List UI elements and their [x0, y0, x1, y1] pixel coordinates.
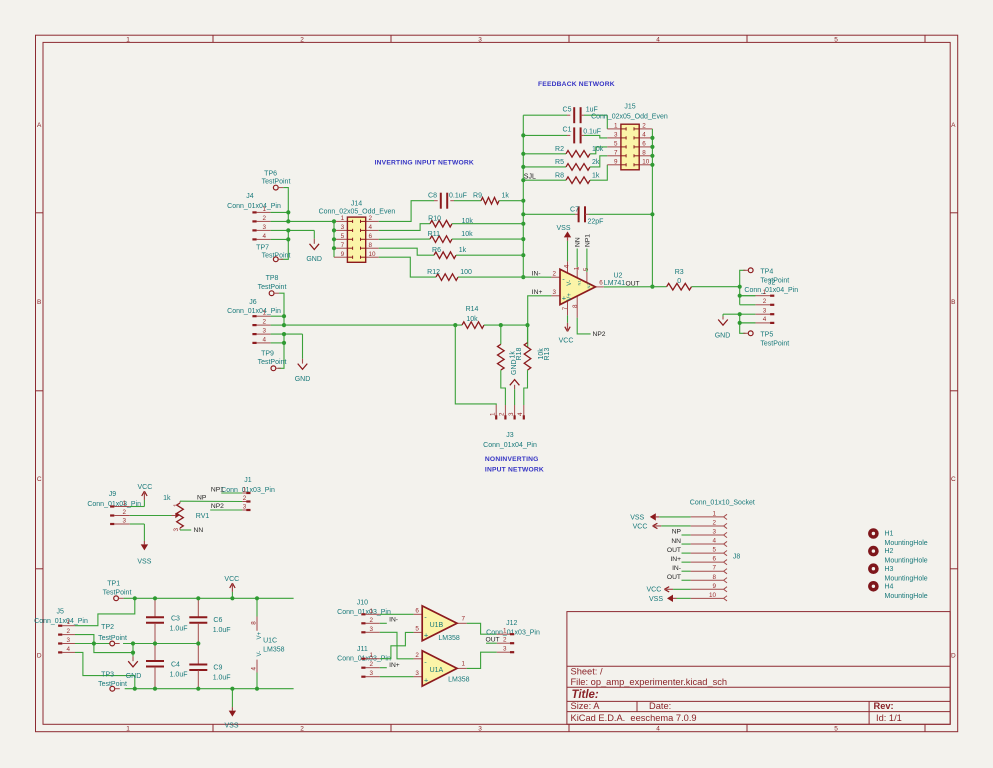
svg-text:C6: C6	[213, 617, 222, 624]
svg-text:2: 2	[300, 725, 304, 732]
svg-text:Conn_02x05_Odd_Even: Conn_02x05_Odd_Even	[591, 113, 668, 120]
svg-text:N2: N2	[586, 283, 591, 289]
svg-text:TP8: TP8	[266, 275, 279, 282]
svg-text:C: C	[37, 476, 42, 483]
svg-text:7: 7	[614, 150, 618, 157]
svg-text:IN-: IN-	[672, 565, 681, 572]
svg-text:1k: 1k	[163, 495, 171, 502]
svg-text:J9: J9	[109, 491, 117, 498]
svg-text:3: 3	[503, 646, 507, 653]
svg-text:TP9: TP9	[261, 351, 274, 358]
svg-text:1: 1	[763, 289, 767, 296]
svg-text:10: 10	[709, 592, 717, 599]
svg-text:R2: R2	[555, 146, 564, 153]
svg-text:IN+: IN+	[532, 289, 543, 296]
svg-text:3: 3	[552, 289, 556, 296]
svg-text:MountingHole: MountingHole	[885, 575, 928, 582]
svg-text:4: 4	[763, 316, 767, 323]
svg-text:5: 5	[712, 547, 716, 554]
svg-text:VCC: VCC	[138, 484, 153, 491]
svg-text:1k: 1k	[592, 172, 600, 179]
svg-text:D: D	[951, 653, 956, 660]
svg-text:3: 3	[262, 328, 266, 335]
svg-text:2: 2	[369, 661, 373, 668]
svg-text:TP5: TP5	[760, 331, 773, 338]
svg-text:FEEDBACK NETWORK: FEEDBACK NETWORK	[538, 81, 615, 88]
svg-text:H3: H3	[885, 566, 894, 573]
svg-text:J11: J11	[357, 646, 368, 653]
svg-text:2: 2	[243, 495, 247, 502]
svg-text:VCC: VCC	[559, 338, 574, 345]
svg-text:1: 1	[126, 36, 130, 43]
svg-text:LM358: LM358	[438, 635, 460, 642]
svg-text:A: A	[951, 122, 956, 129]
svg-text:1k: 1k	[459, 247, 467, 254]
svg-text:N1: N1	[577, 280, 582, 286]
svg-text:C9: C9	[213, 665, 222, 672]
svg-text:GND: GND	[715, 333, 731, 340]
svg-text:R13: R13	[544, 348, 551, 361]
svg-text:4: 4	[369, 224, 373, 231]
svg-text:1: 1	[462, 661, 466, 668]
svg-text:U1A: U1A	[430, 667, 444, 674]
svg-text:J3: J3	[506, 432, 514, 439]
svg-text:2: 2	[499, 412, 506, 416]
svg-text:VSS: VSS	[224, 723, 238, 730]
svg-text:3: 3	[508, 412, 515, 416]
svg-text:TP2: TP2	[101, 624, 114, 631]
svg-text:LM358: LM358	[448, 676, 470, 683]
svg-text:Id: 1/1: Id: 1/1	[876, 713, 902, 723]
svg-text:H1: H1	[885, 531, 894, 538]
svg-text:1: 1	[369, 652, 373, 659]
svg-text:0.1uF: 0.1uF	[583, 128, 601, 135]
svg-text:V-: V-	[257, 651, 263, 657]
svg-text:3: 3	[415, 670, 419, 677]
svg-text:J8: J8	[733, 554, 741, 561]
svg-text:B: B	[37, 299, 41, 306]
svg-text:2: 2	[66, 628, 70, 635]
svg-text:1.0uF: 1.0uF	[213, 627, 231, 634]
svg-text:4: 4	[656, 725, 660, 732]
svg-text:4: 4	[564, 264, 571, 268]
svg-text:3: 3	[614, 132, 618, 139]
svg-text:IN-: IN-	[532, 271, 541, 278]
svg-text:1: 1	[369, 608, 373, 615]
svg-text:1: 1	[712, 510, 716, 517]
svg-text:NP2: NP2	[211, 503, 224, 510]
svg-text:1: 1	[66, 619, 70, 626]
svg-text:1.0uF: 1.0uF	[170, 626, 188, 633]
svg-text:Date:: Date:	[649, 701, 671, 711]
svg-text:Conn_02x05_Odd_Even: Conn_02x05_Odd_Even	[319, 208, 396, 215]
svg-text:6: 6	[599, 279, 603, 286]
svg-text:INPUT NETWORK: INPUT NETWORK	[485, 467, 544, 474]
svg-text:SJL: SJL	[524, 173, 536, 180]
svg-text:R12: R12	[427, 269, 440, 276]
svg-text:VSS: VSS	[649, 596, 663, 603]
svg-text:9: 9	[712, 583, 716, 590]
svg-text:NP1: NP1	[211, 487, 224, 494]
svg-text:J15: J15	[624, 104, 635, 111]
svg-text:RV1: RV1	[196, 513, 210, 520]
svg-text:C4: C4	[171, 661, 180, 668]
svg-text:IN+: IN+	[670, 556, 681, 563]
svg-text:5: 5	[614, 141, 618, 148]
svg-text:3: 3	[122, 518, 126, 525]
svg-text:INVERTING INPUT NETWORK: INVERTING INPUT NETWORK	[375, 159, 474, 166]
svg-text:U1B: U1B	[430, 622, 444, 629]
svg-text:H2: H2	[885, 548, 894, 555]
svg-text:2: 2	[763, 298, 767, 305]
svg-text:3: 3	[173, 528, 180, 532]
svg-text:6: 6	[369, 233, 373, 240]
svg-text:1: 1	[503, 628, 507, 635]
svg-text:J2: J2	[768, 279, 776, 286]
svg-text:MountingHole: MountingHole	[885, 540, 928, 547]
svg-text:+: +	[424, 630, 429, 639]
svg-text:10k: 10k	[462, 218, 474, 225]
svg-text:VSS: VSS	[556, 225, 570, 232]
svg-text:U2: U2	[614, 273, 623, 280]
svg-text:R9: R9	[473, 193, 482, 200]
svg-text:NN: NN	[575, 237, 582, 247]
svg-text:+: +	[424, 675, 429, 684]
svg-text:GND: GND	[295, 376, 311, 383]
svg-text:IN+: IN+	[389, 662, 400, 669]
svg-text:2: 2	[369, 617, 373, 624]
svg-text:R18: R18	[516, 348, 523, 361]
svg-text:R11: R11	[428, 231, 440, 238]
svg-text:22pF: 22pF	[588, 218, 604, 225]
svg-text:V+: V+	[567, 293, 573, 301]
svg-text:6: 6	[415, 608, 419, 615]
svg-text:2k: 2k	[592, 159, 600, 166]
svg-text:3: 3	[478, 36, 482, 43]
svg-text:U1C: U1C	[263, 638, 277, 645]
svg-text:VCC: VCC	[633, 523, 648, 530]
svg-text:Conn_01x04_Pin: Conn_01x04_Pin	[744, 287, 798, 294]
svg-text:File: op_amp_experimenter.kica: File: op_amp_experimenter.kicad_sch	[571, 677, 728, 687]
svg-text:V-: V-	[567, 280, 573, 286]
svg-text:Conn_01x04_Pin: Conn_01x04_Pin	[227, 308, 281, 315]
svg-text:Rev:: Rev:	[874, 701, 894, 711]
svg-text:B: B	[951, 299, 955, 306]
svg-text:TestPoint: TestPoint	[258, 284, 287, 291]
svg-text:10k: 10k	[592, 146, 604, 153]
svg-text:J1: J1	[244, 477, 252, 484]
svg-text:J10: J10	[357, 600, 368, 607]
svg-text:TP3: TP3	[101, 671, 114, 678]
svg-text:7: 7	[462, 616, 466, 623]
svg-text:5: 5	[341, 233, 345, 240]
svg-text:D: D	[37, 653, 42, 660]
svg-text:9: 9	[614, 159, 618, 166]
svg-text:10: 10	[369, 251, 377, 258]
svg-text:H4: H4	[885, 583, 894, 590]
svg-text:GND: GND	[306, 256, 322, 263]
svg-text:4: 4	[712, 538, 716, 545]
svg-text:0.1uF: 0.1uF	[449, 193, 467, 200]
svg-text:Conn_01x04_Pin: Conn_01x04_Pin	[483, 442, 537, 449]
svg-text:V+: V+	[257, 631, 263, 639]
svg-text:KiCad E.D.A. eeschema 7.0.9: KiCad E.D.A. eeschema 7.0.9	[571, 713, 697, 723]
svg-text:NP: NP	[672, 529, 682, 536]
svg-text:8: 8	[250, 621, 257, 625]
svg-text:NP1: NP1	[584, 234, 591, 247]
svg-text:R14: R14	[466, 306, 479, 313]
svg-text:J14: J14	[351, 200, 362, 207]
svg-text:1k: 1k	[502, 193, 510, 200]
svg-text:Title:: Title:	[572, 689, 599, 701]
svg-text:10k: 10k	[466, 316, 478, 323]
svg-text:GND: GND	[511, 359, 518, 375]
svg-text:4: 4	[642, 132, 646, 139]
svg-text:4: 4	[656, 36, 660, 43]
svg-text:2: 2	[642, 123, 646, 130]
svg-text:MountingHole: MountingHole	[885, 593, 928, 600]
svg-text:8: 8	[369, 242, 373, 249]
svg-text:1: 1	[614, 123, 618, 130]
svg-text:3: 3	[341, 224, 345, 231]
svg-text:2: 2	[712, 519, 716, 526]
svg-text:6: 6	[712, 556, 716, 563]
svg-text:3: 3	[763, 307, 767, 314]
svg-text:C8: C8	[428, 193, 437, 200]
svg-text:J5: J5	[56, 609, 64, 616]
svg-text:10k: 10k	[461, 231, 473, 238]
svg-text:1: 1	[122, 500, 126, 507]
svg-text:R5: R5	[555, 159, 564, 166]
svg-text:10: 10	[642, 159, 650, 166]
svg-text:J12: J12	[506, 620, 517, 627]
svg-text:100: 100	[460, 269, 472, 276]
svg-text:OUT: OUT	[486, 637, 500, 644]
svg-text:Size: A: Size: A	[571, 701, 601, 711]
svg-text:NN: NN	[671, 538, 681, 545]
svg-text:Conn_01x04_Pin: Conn_01x04_Pin	[34, 618, 88, 625]
svg-text:9: 9	[341, 251, 345, 258]
svg-text:VSS: VSS	[630, 514, 644, 521]
svg-text:7: 7	[562, 306, 569, 310]
svg-text:LM741: LM741	[604, 280, 626, 287]
svg-text:TP1: TP1	[107, 581, 120, 588]
svg-text:2: 2	[262, 319, 266, 326]
svg-text:2: 2	[300, 36, 304, 43]
svg-text:R3: R3	[675, 269, 684, 276]
svg-text:7: 7	[341, 242, 345, 249]
svg-text:2: 2	[262, 215, 266, 222]
svg-text:8: 8	[712, 574, 716, 581]
svg-text:4: 4	[262, 336, 266, 343]
svg-text:7: 7	[712, 565, 716, 572]
svg-text:NONINVERTING: NONINVERTING	[485, 456, 539, 463]
svg-text:1: 1	[126, 725, 130, 732]
svg-text:6: 6	[642, 141, 646, 148]
svg-text:TestPoint: TestPoint	[760, 340, 789, 347]
svg-text:VCC: VCC	[647, 587, 662, 594]
svg-text:R6: R6	[432, 247, 441, 254]
svg-text:4: 4	[262, 233, 266, 240]
svg-text:A: A	[37, 122, 42, 129]
svg-text:NN: NN	[194, 527, 204, 534]
svg-text:C3: C3	[171, 616, 180, 623]
svg-text:OUT: OUT	[667, 547, 681, 554]
svg-text:TestPoint: TestPoint	[258, 359, 287, 366]
svg-text:3: 3	[369, 670, 373, 677]
svg-text:C5: C5	[563, 107, 572, 114]
svg-text:Sheet: /: Sheet: /	[571, 667, 603, 677]
svg-text:3: 3	[478, 725, 482, 732]
svg-text:VCC: VCC	[224, 576, 239, 583]
svg-text:R8: R8	[555, 172, 564, 179]
svg-text:NP: NP	[197, 495, 207, 502]
svg-text:MountingHole: MountingHole	[885, 558, 928, 565]
svg-text:R10: R10	[428, 216, 441, 223]
svg-text:1: 1	[262, 310, 266, 317]
svg-text:TP7: TP7	[256, 244, 269, 251]
svg-text:LM358: LM358	[263, 647, 285, 654]
svg-text:C: C	[951, 476, 956, 483]
svg-text:1: 1	[173, 503, 180, 507]
svg-text:J6: J6	[249, 299, 257, 306]
svg-text:8: 8	[572, 304, 579, 308]
svg-text:3: 3	[712, 529, 716, 536]
svg-text:4: 4	[66, 646, 70, 653]
svg-text:1.0uF: 1.0uF	[170, 671, 188, 678]
svg-text:J4: J4	[246, 193, 254, 200]
svg-text:C1: C1	[563, 127, 572, 134]
svg-text:2: 2	[415, 652, 419, 659]
svg-text:4: 4	[250, 667, 257, 671]
svg-text:0: 0	[677, 278, 681, 285]
svg-text:1: 1	[341, 215, 345, 222]
svg-text:Conn_01x03_Pin: Conn_01x03_Pin	[486, 630, 540, 637]
svg-text:Conn_01x10_Socket: Conn_01x10_Socket	[690, 500, 755, 507]
svg-text:5: 5	[834, 36, 838, 43]
svg-text:3: 3	[243, 504, 247, 511]
svg-text:IN-: IN-	[389, 617, 398, 624]
svg-text:2: 2	[122, 509, 126, 516]
svg-text:5: 5	[415, 626, 419, 633]
svg-text:1.0uF: 1.0uF	[213, 675, 231, 682]
svg-text:3: 3	[262, 224, 266, 231]
svg-text:NP2: NP2	[593, 331, 606, 338]
svg-text:4: 4	[517, 412, 524, 416]
svg-text:OUT: OUT	[667, 574, 681, 581]
svg-text:2: 2	[503, 637, 507, 644]
svg-text:1: 1	[489, 412, 496, 416]
svg-text:1: 1	[243, 487, 247, 494]
svg-text:C7: C7	[570, 206, 579, 213]
svg-text:3: 3	[369, 626, 373, 633]
svg-text:Conn_01x04_Pin: Conn_01x04_Pin	[227, 203, 281, 210]
svg-text:2: 2	[552, 270, 556, 277]
svg-text:2: 2	[369, 215, 373, 222]
svg-text:5: 5	[834, 725, 838, 732]
svg-text:GND: GND	[126, 673, 142, 680]
svg-text:TP6: TP6	[264, 170, 277, 177]
svg-text:8: 8	[642, 150, 646, 157]
svg-text:1: 1	[262, 206, 266, 213]
svg-text:TP4: TP4	[760, 268, 773, 275]
svg-text:VSS: VSS	[137, 559, 151, 566]
svg-text:3: 3	[66, 637, 70, 644]
